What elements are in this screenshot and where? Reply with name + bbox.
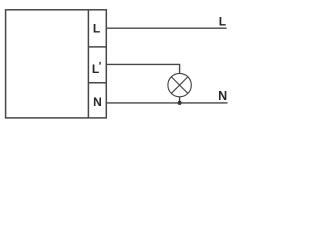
lamp E1 circle [168, 73, 191, 96]
terminal L cell divider [88, 46, 106, 48]
device box U1 [6, 10, 107, 118]
wire L' horizontal [106, 64, 179, 73]
terminal N cell divider [88, 82, 106, 84]
svg-text:N: N [93, 95, 102, 109]
svg-text:L: L [92, 62, 99, 76]
wire lamp to N [179, 97, 181, 103]
terminal column divider [87, 10, 89, 118]
svg-text:L: L [93, 21, 100, 35]
lamp E1 cross [171, 77, 187, 93]
svg-text:L: L [219, 15, 226, 29]
svg-text:N: N [218, 89, 227, 103]
junction dot [178, 101, 182, 105]
wire N [106, 102, 227, 104]
wire L [106, 27, 226, 29]
